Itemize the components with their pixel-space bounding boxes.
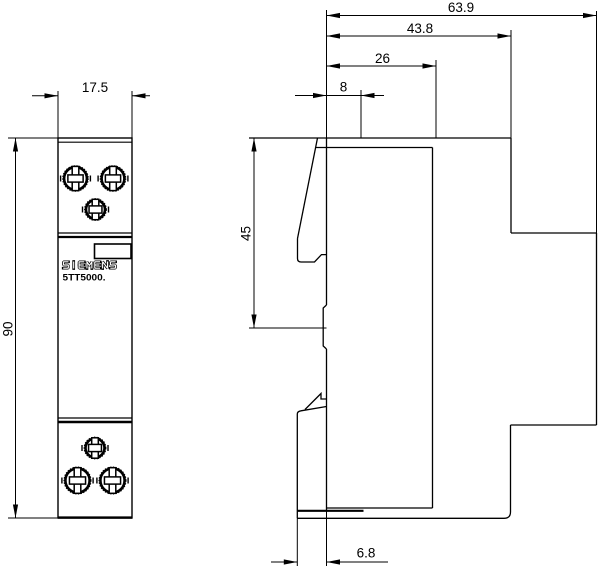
extension front face	[326, 10, 328, 138]
arrows 8 (outside)	[313, 93, 327, 98]
extension 8	[360, 90, 362, 138]
dim line 26	[327, 65, 437, 67]
upper separator thick	[58, 236, 132, 238]
screw terminal top-left	[61, 166, 91, 191]
dim line 8	[295, 95, 384, 97]
svg-text:26: 26	[375, 51, 390, 66]
top edge + 45 extension	[249, 137, 511, 139]
screw terminal lower-middle	[82, 437, 108, 458]
extension lines	[57, 91, 59, 138]
front notch	[323, 305, 326, 349]
arrows 43.8	[327, 33, 341, 38]
dim line tails	[32, 95, 58, 97]
svg-text:90: 90	[1, 321, 16, 336]
screw terminal bottom-left	[62, 467, 93, 493]
dim line 63.9	[327, 15, 597, 17]
screw terminal top-right	[98, 166, 128, 191]
rear upper vertical	[510, 138, 512, 233]
screw terminal bottom-right	[97, 467, 128, 493]
screw terminal upper-middle	[83, 199, 109, 220]
svg-text:63.9: 63.9	[448, 0, 474, 15]
body right edge	[432, 148, 434, 509]
svg-text:5TT5000.: 5TT5000.	[63, 273, 106, 284]
bottom edge thick	[58, 516, 132, 518]
arrows 63.9	[327, 13, 341, 18]
clip pocket	[298, 239, 327, 263]
lower separator thick	[58, 421, 132, 423]
svg-text:6.8: 6.8	[357, 546, 376, 561]
rear-most vertical	[596, 233, 598, 425]
lower separator thin	[58, 417, 132, 419]
front slant of clip	[298, 138, 318, 239]
svg-text:8: 8	[340, 80, 348, 95]
front face vertical lower	[326, 349, 328, 510]
SIEMENS logo text	[63, 262, 115, 269]
device outline front view	[58, 138, 132, 518]
dim line 43.8	[327, 35, 512, 37]
label window rectangle	[95, 244, 132, 259]
top inner line	[58, 141, 132, 143]
front face vertical upper	[326, 138, 328, 305]
extension 26	[435, 60, 437, 138]
extension 63.9	[596, 11, 598, 233]
clip bottom slope into foot	[297, 407, 326, 519]
inner top line	[316, 147, 433, 149]
extension 43.8	[510, 30, 512, 138]
rear lower vertical	[298, 425, 511, 518]
rear lower step horizontal	[511, 424, 597, 426]
svg-text:17.5: 17.5	[82, 80, 108, 95]
clip spur diagonal	[305, 394, 327, 410]
svg-text:45: 45	[239, 226, 254, 241]
rear step horizontal	[511, 232, 597, 234]
svg-text:43.8: 43.8	[407, 21, 433, 36]
body bottom line	[327, 507, 433, 509]
upper separator thin	[58, 232, 132, 234]
foot thick bottom line	[297, 510, 363, 512]
arrows 26	[327, 63, 341, 68]
